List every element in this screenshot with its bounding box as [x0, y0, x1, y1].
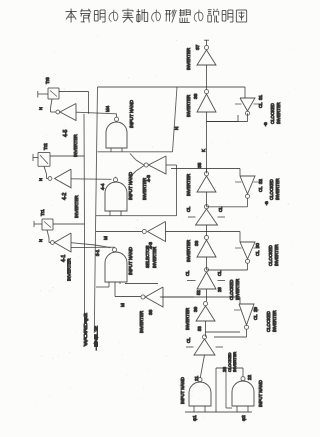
- svg-text:INVERTER: INVERTER: [276, 102, 281, 124]
- svg-text:22: 22: [247, 374, 252, 380]
- svg-text:CL: CL: [185, 270, 190, 276]
- svg-text:M: M: [103, 236, 108, 240]
- svg-text:INVERTER: INVERTER: [152, 247, 157, 268]
- svg-text:CL: CL: [186, 337, 191, 343]
- svg-text:CLOCKED: CLOCKED: [269, 179, 274, 200]
- svg-text:33: 33: [194, 240, 200, 246]
- svg-text:INVERTER: INVERTER: [74, 195, 79, 218]
- svg-text:39: 39: [193, 306, 199, 312]
- svg-text:φ: φ: [265, 201, 268, 206]
- svg-text:INPUT NAND: INPUT NAND: [258, 380, 263, 407]
- svg-text:INVERTER: INVERTER: [186, 48, 191, 70]
- svg-text:4-5: 4-5: [63, 130, 69, 137]
- svg-text:CL: CL: [255, 250, 260, 256]
- svg-text:CL: CL: [258, 102, 263, 108]
- svg-text:M4: M4: [105, 105, 110, 112]
- svg-text:M: M: [120, 303, 125, 307]
- svg-text:INVERTER: INVERTER: [274, 244, 279, 266]
- svg-text:4-2: 4-2: [62, 193, 68, 200]
- svg-text:INPUT NAND: INPUT NAND: [128, 246, 133, 275]
- svg-text:INVERTER: INVERTER: [186, 174, 191, 196]
- svg-text:CL: CL: [258, 186, 263, 192]
- svg-text:21: 21: [194, 375, 199, 381]
- svg-text:INPUT NAND: INPUT NAND: [180, 377, 185, 404]
- svg-text:φ1: φ1: [192, 415, 198, 421]
- svg-text:INVERTER: INVERTER: [139, 311, 144, 333]
- svg-text:K: K: [201, 149, 206, 152]
- svg-text:4-4: 4-4: [100, 183, 105, 190]
- svg-text:INVERTER: INVERTER: [186, 95, 191, 117]
- svg-text:3-1: 3-1: [95, 249, 100, 256]
- svg-text:52: 52: [196, 290, 201, 295]
- svg-text:INVERTER: INVERTER: [232, 352, 237, 372]
- svg-text:38: 38: [148, 309, 154, 315]
- svg-text:SELECTOR: SELECTOR: [145, 246, 150, 269]
- svg-text:CLOCKED: CLOCKED: [266, 311, 271, 332]
- svg-text:30: 30: [255, 243, 260, 248]
- svg-text:INVERTER: INVERTER: [73, 134, 78, 157]
- svg-text:CL: CL: [217, 270, 222, 276]
- svg-text:CL: CL: [253, 314, 258, 320]
- svg-text:36: 36: [193, 93, 199, 99]
- svg-text:φ: φ: [264, 122, 267, 127]
- svg-text:N: N: [38, 178, 43, 181]
- svg-text:INPUT NAND: INPUT NAND: [128, 171, 133, 200]
- svg-text:INVERTER: INVERTER: [185, 308, 190, 330]
- svg-text:35: 35: [197, 162, 203, 168]
- svg-text:CLOCKED: CLOCKED: [268, 245, 273, 266]
- svg-text:CL: CL: [186, 206, 191, 212]
- svg-text:φ2: φ2: [241, 415, 247, 421]
- svg-text:N: N: [38, 239, 43, 242]
- svg-text:CLOCKED: CLOCKED: [270, 103, 275, 124]
- svg-text:37: 37: [195, 44, 201, 50]
- svg-text:INVERTER: INVERTER: [275, 178, 280, 200]
- svg-text:Tr2: Tr2: [43, 143, 48, 150]
- svg-text:WORDφ2: WORDφ2: [83, 312, 88, 346]
- svg-text:INPUT NAND: INPUT NAND: [129, 99, 134, 128]
- svg-text:N: N: [38, 107, 43, 110]
- svg-text:-INL2: -INL2: [94, 325, 99, 350]
- svg-text:Tr1: Tr1: [40, 209, 45, 216]
- svg-text:32: 32: [258, 179, 263, 184]
- svg-text:INVERTER: INVERTER: [272, 310, 277, 332]
- svg-text:29: 29: [253, 307, 258, 312]
- svg-text:53: 53: [197, 326, 202, 331]
- svg-text:Tr3: Tr3: [45, 77, 50, 84]
- svg-text:INVERTER: INVERTER: [186, 240, 191, 262]
- svg-text:N: N: [174, 127, 179, 130]
- svg-text:28: 28: [217, 287, 222, 292]
- svg-text:31: 31: [258, 95, 263, 100]
- svg-text:INVERTER: INVERTER: [67, 258, 72, 281]
- svg-text:INVERTER: INVERTER: [142, 178, 147, 200]
